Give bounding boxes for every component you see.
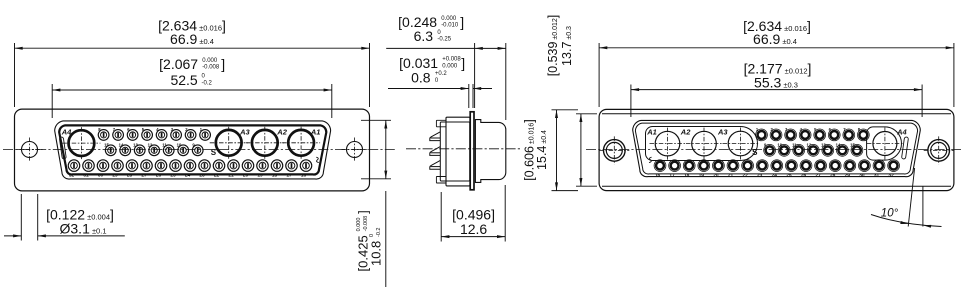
svg-text:30: 30	[98, 173, 104, 179]
svg-text:11: 11	[792, 143, 797, 148]
svg-text:10: 10	[177, 143, 182, 148]
svg-text:13: 13	[821, 143, 826, 148]
svg-text:0.000: 0.000	[202, 58, 218, 64]
svg-text:[2.067: [2.067	[159, 56, 198, 72]
svg-text:27: 27	[141, 173, 147, 179]
svg-text:32: 32	[69, 173, 75, 179]
svg-text:24: 24	[185, 173, 191, 179]
svg-text:0.8: 0.8	[411, 70, 431, 86]
svg-text:32: 32	[888, 173, 894, 179]
svg-text:30: 30	[859, 173, 865, 179]
svg-text:12: 12	[807, 143, 812, 148]
svg-text:27: 27	[815, 173, 821, 179]
svg-text:28: 28	[127, 173, 133, 179]
svg-text:18: 18	[684, 173, 690, 179]
svg-text:+0.2: +0.2	[435, 71, 448, 77]
svg-text:A3: A3	[239, 127, 250, 136]
svg-text:10.8: 10.8	[369, 241, 384, 266]
svg-text:A2: A2	[276, 127, 287, 136]
svg-text:0.000: 0.000	[441, 16, 457, 22]
svg-text:A2: A2	[680, 127, 691, 136]
svg-text:12.6: 12.6	[460, 221, 487, 237]
svg-text:A4: A4	[896, 127, 907, 136]
svg-text:25: 25	[786, 173, 792, 179]
svg-text:20: 20	[713, 173, 719, 179]
svg-text:]: ]	[460, 14, 464, 30]
svg-text:A1: A1	[310, 127, 321, 136]
svg-text:17: 17	[669, 173, 675, 179]
svg-text:20: 20	[243, 173, 249, 179]
svg-text:-0.2: -0.2	[202, 80, 213, 86]
svg-text:25: 25	[170, 173, 176, 179]
svg-text:14: 14	[119, 143, 124, 148]
svg-text:24: 24	[772, 173, 778, 179]
svg-text:]: ]	[221, 56, 225, 72]
svg-text:26: 26	[801, 173, 807, 179]
svg-text:+0.008: +0.008	[442, 57, 461, 63]
svg-text:0: 0	[369, 234, 375, 237]
svg-text:18: 18	[272, 173, 278, 179]
svg-text:S: S	[752, 148, 758, 157]
svg-text:-0.2: -0.2	[376, 227, 382, 236]
svg-text:26: 26	[156, 173, 162, 179]
svg-text:14: 14	[836, 143, 841, 148]
svg-text:15: 15	[104, 143, 109, 148]
svg-text:16: 16	[301, 173, 307, 179]
svg-text:28: 28	[830, 173, 836, 179]
svg-text:A3: A3	[717, 127, 728, 136]
svg-text:19: 19	[699, 173, 705, 179]
svg-text:]: ]	[356, 210, 371, 214]
svg-text:23: 23	[757, 173, 763, 179]
svg-text:]: ]	[461, 55, 465, 71]
svg-text:-0.010: -0.010	[441, 23, 459, 29]
svg-text:A1: A1	[646, 127, 657, 136]
svg-text:-0.25: -0.25	[437, 37, 451, 43]
svg-text:10: 10	[777, 143, 782, 148]
svg-text:-0.008: -0.008	[363, 216, 369, 232]
svg-text:29: 29	[112, 173, 118, 179]
svg-text:16: 16	[655, 173, 661, 179]
svg-text:13: 13	[133, 143, 138, 148]
svg-text:22: 22	[214, 173, 220, 179]
svg-text:12: 12	[148, 143, 153, 148]
svg-text:17: 17	[286, 173, 292, 179]
svg-text:15: 15	[850, 143, 855, 148]
svg-text:21: 21	[728, 173, 734, 179]
svg-text:52.5: 52.5	[170, 72, 197, 88]
svg-text:31: 31	[83, 173, 89, 179]
svg-text:0.000: 0.000	[356, 218, 362, 232]
svg-text:S: S	[211, 148, 217, 157]
svg-text:31: 31	[874, 173, 880, 179]
svg-text:11: 11	[162, 143, 167, 148]
svg-text:6.3: 6.3	[414, 28, 434, 44]
svg-text:23: 23	[199, 173, 205, 179]
svg-text:29: 29	[845, 173, 851, 179]
svg-text:22: 22	[742, 173, 748, 179]
svg-text:19: 19	[257, 173, 263, 179]
svg-text:10°: 10°	[881, 208, 899, 220]
svg-text:0.000: 0.000	[442, 63, 458, 69]
svg-text:-0.008: -0.008	[202, 65, 220, 71]
svg-text:A4: A4	[61, 127, 72, 136]
svg-text:21: 21	[228, 173, 234, 179]
